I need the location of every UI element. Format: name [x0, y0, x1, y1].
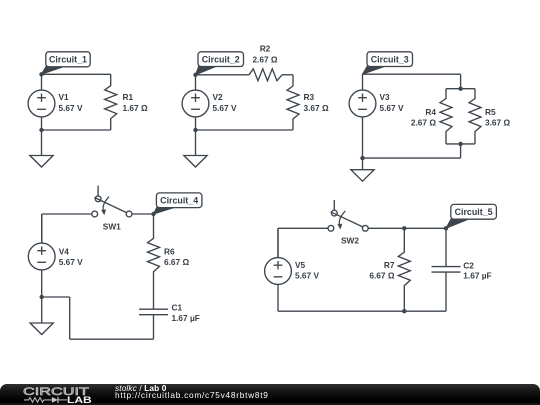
label flag Circuit_1 — [42, 52, 91, 75]
wire: parallel bottom bar — [446, 143, 475, 145]
logo diode — [52, 397, 67, 403]
ground: Circuit_1 — [30, 130, 53, 167]
svg-text:LAB: LAB — [67, 395, 92, 405]
logo resistor squiggle — [24, 398, 52, 403]
svg-text:R4: R4 — [425, 107, 436, 117]
wire: SW1 to node — [132, 213, 153, 215]
voltage source V2 — [182, 75, 237, 130]
svg-text:V4: V4 — [59, 246, 70, 256]
wire: V5 top to SW2 — [278, 228, 328, 258]
ground: Circuit_4 — [30, 297, 53, 335]
voltage source V5 — [265, 228, 320, 311]
svg-text:1.67 µF: 1.67 µF — [172, 313, 200, 323]
ground: Circuit_3 — [351, 158, 374, 181]
svg-text:5.67 V: 5.67 V — [213, 103, 237, 113]
svg-text:5.67 V: 5.67 V — [59, 257, 83, 267]
label flag Circuit_2 — [196, 52, 244, 75]
svg-text:V2: V2 — [213, 92, 224, 102]
resistor R3 — [287, 86, 329, 130]
resistor R2 — [249, 43, 282, 80]
wire: V4 top to SW1 — [42, 214, 92, 243]
svg-text:V3: V3 — [380, 92, 391, 102]
svg-text:5.67 V: 5.67 V — [59, 103, 83, 113]
svg-text:R5: R5 — [485, 107, 496, 117]
svg-text:5.67 V: 5.67 V — [295, 271, 319, 281]
wire: Circuit_4 bottom return — [42, 297, 154, 339]
node: Circuit_3 bottom junction — [360, 156, 364, 160]
voltage source V3 — [349, 74, 404, 158]
voltage source V4 — [28, 214, 83, 297]
label flag Circuit_3 — [363, 52, 413, 74]
resistor R7 — [369, 228, 410, 311]
svg-text:R6: R6 — [164, 246, 175, 256]
svg-text:5.67 V: 5.67 V — [380, 103, 404, 113]
svg-text:6.67 Ω: 6.67 Ω — [164, 257, 189, 267]
resistor R1 — [105, 74, 148, 130]
wire: Circuit_3 top rail — [363, 74, 461, 89]
node: Circuit_2 top junction — [193, 73, 197, 77]
svg-text:C2: C2 — [463, 261, 474, 271]
svg-text:Circuit_4: Circuit_4 — [160, 195, 198, 205]
node: parallel top junction — [458, 87, 462, 91]
node: Circuit_1 top junction — [39, 72, 43, 76]
resistor R4 — [411, 89, 452, 144]
node: Circuit_5 top junction — [444, 226, 448, 230]
label flag Circuit_4 — [154, 193, 202, 214]
svg-text:Circuit_2: Circuit_2 — [202, 54, 240, 64]
svg-text:Circuit_3: Circuit_3 — [371, 54, 409, 64]
node: parallel bottom junction — [458, 142, 462, 146]
svg-text:1.67 Ω: 1.67 Ω — [123, 103, 148, 113]
svg-text:3.67 Ω: 3.67 Ω — [485, 117, 510, 127]
svg-text:R7: R7 — [384, 260, 395, 270]
node: V4 bottom junction — [40, 295, 44, 299]
svg-text:2.67 Ω: 2.67 Ω — [252, 55, 277, 65]
wire: Circuit_1 top rail — [42, 73, 111, 75]
svg-text:SW1: SW1 — [103, 222, 121, 232]
resistor R5 — [469, 89, 510, 144]
node: Circuit_2 bottom junction — [193, 128, 197, 132]
svg-text:1.67 µF: 1.67 µF — [463, 270, 491, 280]
node: R7 top junction — [402, 226, 406, 230]
voltage source V1 — [28, 74, 83, 130]
ground: Circuit_2 — [184, 130, 207, 167]
svg-text:R2: R2 — [260, 43, 271, 53]
wire: Circuit_2 V2 to R2 — [196, 74, 250, 76]
wire: SW2 to C2 top — [369, 227, 447, 229]
node: Circuit_4 top junction — [151, 212, 155, 216]
footer bar — [0, 384, 540, 405]
svg-text:V1: V1 — [59, 92, 70, 102]
capacitor C1 — [139, 303, 200, 340]
node: Circuit_1 bottom junction — [39, 128, 43, 132]
svg-text:R3: R3 — [304, 92, 315, 102]
label flag Circuit_5 — [446, 204, 496, 228]
svg-text:Circuit_1: Circuit_1 — [49, 55, 87, 65]
svg-text:Circuit_5: Circuit_5 — [455, 207, 493, 217]
svg-text:2.67 Ω: 2.67 Ω — [411, 117, 436, 127]
svg-text:3.67 Ω: 3.67 Ω — [304, 103, 329, 113]
logo wordmark LAB — [67, 395, 92, 405]
wire: Circuit_3 bottom rail — [363, 144, 461, 158]
svg-text:C1: C1 — [172, 303, 183, 313]
wire: Circuit_1 bottom rail — [42, 129, 111, 131]
switch SW1 — [92, 186, 132, 232]
svg-text:R1: R1 — [123, 92, 134, 102]
svg-text:6.67 Ω: 6.67 Ω — [369, 271, 394, 281]
svg-text:V5: V5 — [295, 260, 306, 270]
switch SW2 — [328, 200, 368, 246]
resistor R6 — [148, 214, 190, 309]
wire: R2 to R3 corner — [282, 75, 293, 86]
capacitor C2 — [432, 228, 492, 311]
wire: Circuit_5 bottom rail — [278, 310, 446, 312]
node: R7 bottom junction — [402, 309, 406, 313]
logo wordmark CIRCUIT — [23, 386, 89, 398]
wire: Circuit_2 bottom rail — [196, 129, 294, 131]
svg-text:SW2: SW2 — [341, 236, 359, 246]
wire: parallel top bar — [446, 88, 475, 90]
